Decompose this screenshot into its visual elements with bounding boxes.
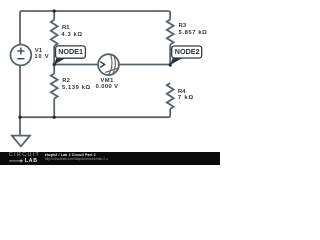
node NODE1 callout tail: [54, 58, 67, 65]
V1 minus sign: [17, 58, 24, 60]
label VM1 name: [100, 76, 114, 86]
wire bottom rail: [20, 116, 168, 118]
ground: [12, 136, 30, 147]
label R4 name: [178, 87, 186, 97]
footer bar: [0, 152, 220, 165]
wire R4 bottom lead: [168, 109, 170, 117]
wire ground stem: [19, 117, 21, 135]
label R2 name: [62, 76, 70, 86]
resistor R1: [51, 20, 58, 46]
label R1 value: [61, 30, 82, 40]
logo CIRCUIT: [9, 150, 40, 160]
VM1 needle: [105, 68, 118, 72]
wire middle right (VM1 to NODE2): [119, 64, 170, 66]
junction dot bottom rail / R2: [53, 116, 56, 119]
junction dot node NODE1: [53, 63, 56, 66]
footer url: [45, 154, 109, 164]
V1 plus sign: [17, 48, 24, 55]
label V1 name: [35, 46, 42, 56]
wire middle left (NODE1 to VM1): [54, 64, 98, 66]
label R2 value: [62, 83, 91, 93]
logo lightning bolt: [20, 159, 24, 163]
resistor R4: [167, 83, 174, 109]
logo LAB: [25, 156, 38, 166]
node NODE1 text: [58, 47, 83, 57]
wire left lower: [19, 65, 21, 117]
label VM1 value: [96, 82, 119, 92]
node NODE2 text: [175, 47, 200, 57]
label V1 value: [34, 52, 49, 62]
VM1 arrow glyph: [100, 62, 104, 68]
node NODE1 callout box: [56, 46, 86, 58]
junction dot top rail / R1: [53, 9, 56, 12]
label R3 value: [179, 28, 208, 38]
wire R1 top lead: [53, 11, 55, 20]
voltmeter VM1 circle: [98, 54, 119, 75]
voltage source V1 circle: [11, 45, 32, 66]
resistor R3: [167, 20, 174, 45]
logo underline: [9, 160, 23, 162]
VM1 inner arc 2: [112, 55, 116, 75]
resistor R2: [51, 74, 58, 99]
footer title: [45, 150, 96, 160]
wire R3 bottom lead: [169, 45, 171, 66]
wire top rail: [22, 10, 168, 12]
node NODE2 callout box: [172, 46, 202, 58]
wire left upper: [20, 11, 22, 45]
label R3 name: [179, 21, 187, 31]
label R4 value: [178, 93, 194, 103]
junction dot bottom rail / V1: [18, 116, 21, 119]
wire R1 bottom lead: [53, 46, 55, 65]
wire R2 top lead: [53, 65, 55, 74]
wire right upper: [168, 11, 170, 20]
node NODE2 callout tail: [170, 58, 183, 65]
wire R2 bottom lead: [53, 99, 55, 118]
label R1 name: [62, 23, 70, 33]
VM1 inner arc 1: [108, 54, 112, 75]
junction dot node NODE2: [169, 63, 172, 66]
